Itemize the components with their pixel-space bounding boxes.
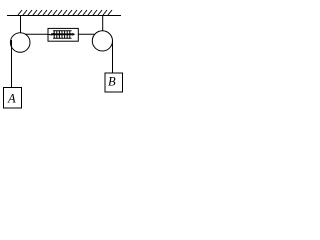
ceiling hatch marks xyxy=(18,10,112,15)
block A xyxy=(4,88,22,109)
rope from left pulley to spring scale hook xyxy=(25,33,48,35)
svg-text:B: B xyxy=(108,75,116,89)
spring scale hook link xyxy=(48,33,54,35)
left pulley xyxy=(10,33,30,53)
ceiling line xyxy=(7,15,121,17)
spring coil ticks xyxy=(54,31,70,38)
spring top rail xyxy=(53,30,72,32)
block B xyxy=(105,73,123,92)
rope from A over left pulley (vertical segment) xyxy=(11,40,13,88)
right pulley xyxy=(92,31,112,51)
spring bottom rail xyxy=(53,37,72,39)
spring shaft xyxy=(51,33,72,35)
right pulley hanger rod xyxy=(102,16,104,32)
rope from spring scale case to right pulley xyxy=(78,33,94,35)
svg-text:A: A xyxy=(7,92,16,106)
rope from right pulley down to B (vertical segment) xyxy=(112,40,114,73)
pointer arrowhead xyxy=(72,33,75,36)
spring scale case xyxy=(48,28,78,41)
left pulley hanger rod xyxy=(20,16,22,35)
